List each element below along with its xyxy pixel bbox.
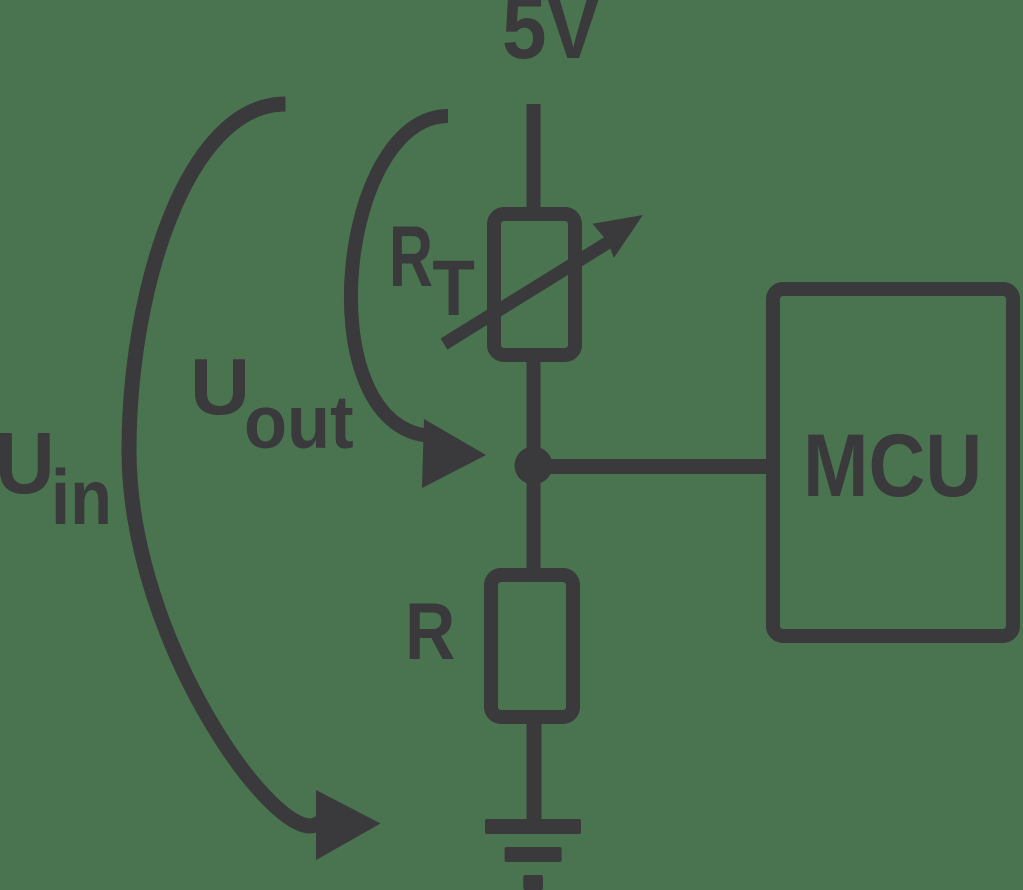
U_in arrowhead [316,790,381,860]
svg-text:R: R [405,587,455,677]
thermistor RT body [494,214,575,355]
wire thermistor to node [527,355,541,470]
wire node to MCU [533,459,770,474]
svg-text:in: in [51,453,112,541]
U_in arc [129,104,330,826]
wire node to resistor [527,465,541,575]
wire 5V to thermistor [527,104,541,214]
svg-text:MCU: MCU [803,415,982,515]
thermistor RT arrowhead [593,215,644,258]
svg-text:5V: 5V [502,0,600,77]
ground bar 3 [523,875,543,890]
ground bar 2 [505,847,562,862]
svg-text:T: T [432,244,474,332]
svg-text:R: R [389,209,433,305]
svg-text:U: U [0,414,55,511]
wire resistor to ground [527,717,542,827]
thermistor RT diagonal line [444,240,612,344]
node junction [515,447,553,485]
U_out arrowhead [422,419,486,488]
svg-text:out: out [244,381,354,464]
U_out arc [351,116,448,437]
MCU box [773,289,1013,636]
svg-text:U: U [190,342,250,431]
resistor R body [491,575,573,717]
ground bar 1 [485,819,581,834]
